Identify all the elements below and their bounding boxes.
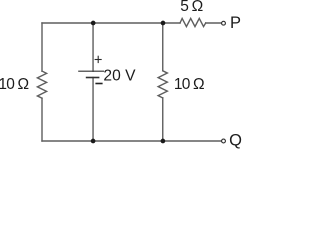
svg-text:P: P <box>230 14 241 32</box>
svg-text:20 V: 20 V <box>103 68 136 85</box>
svg-text:5 Ω: 5 Ω <box>180 0 202 15</box>
svg-text:10 Ω: 10 Ω <box>174 76 204 93</box>
svg-text:Q: Q <box>229 131 242 149</box>
svg-text:10 Ω: 10 Ω <box>0 76 29 93</box>
